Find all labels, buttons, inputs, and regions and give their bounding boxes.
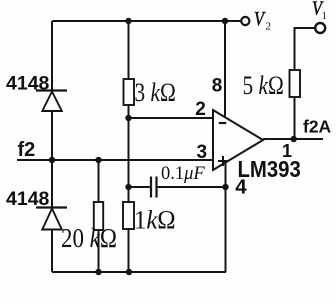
op-amp U1 LM393 triangle xyxy=(213,110,263,170)
wire f2 input to pin 3 xyxy=(17,159,213,161)
wire branch R1/R3 vertical xyxy=(128,21,130,272)
terminal V2 circle xyxy=(241,17,249,25)
terminal V1 circle xyxy=(315,23,325,33)
svg-text:V: V xyxy=(254,8,266,30)
svg-text:5 kΩ: 5 kΩ xyxy=(243,72,284,100)
wire capacitor right xyxy=(157,186,226,188)
node junction output 5k xyxy=(291,136,297,142)
resistor R3 1k body xyxy=(123,202,134,229)
diode D1 cathode bar xyxy=(36,89,67,91)
svg-text:f2A: f2A xyxy=(303,117,332,137)
svg-text:4148: 4148 xyxy=(6,73,50,95)
svg-text:2: 2 xyxy=(195,99,206,120)
wire output f2A xyxy=(263,138,323,140)
node junction bottom rail 20k xyxy=(95,269,101,275)
wire top rail V2 xyxy=(52,20,241,22)
wire capacitor left xyxy=(129,186,151,188)
svg-text:3 kΩ: 3 kΩ xyxy=(135,79,176,107)
svg-text:4: 4 xyxy=(235,176,247,199)
svg-text:3: 3 xyxy=(197,142,208,163)
wire pin 4 to ground rail xyxy=(225,162,227,272)
svg-text:4148: 4148 xyxy=(6,188,50,210)
wire branch R2 20k vertical xyxy=(98,160,100,272)
node junction top rail at pin8 xyxy=(222,18,228,24)
op-amp U1 plus sign xyxy=(218,156,228,166)
diode D2 triangle xyxy=(42,209,62,230)
svg-text:0.1μF: 0.1μF xyxy=(161,164,205,184)
svg-text:8: 8 xyxy=(212,76,223,97)
capacitor C1 left plate xyxy=(150,177,152,198)
node junction bottom rail 1k xyxy=(126,269,132,275)
node junction pin2 / R1 bottom xyxy=(125,115,131,121)
wire V1 branch xyxy=(295,28,315,139)
svg-text:1: 1 xyxy=(322,10,328,22)
node junction f2 left rail xyxy=(49,157,55,163)
diode D2 cathode bar xyxy=(36,206,67,208)
svg-text:2: 2 xyxy=(266,21,272,33)
svg-text:f2: f2 xyxy=(18,139,36,161)
wire pin 8 supply xyxy=(224,21,226,118)
node junction capacitor left xyxy=(125,184,131,190)
svg-text:1: 1 xyxy=(282,141,292,161)
node junction capacitor right pin4 xyxy=(222,184,228,190)
op-amp U1 minus sign xyxy=(219,122,226,124)
capacitor C1 right plate xyxy=(155,177,157,198)
node junction f2 at 20k xyxy=(95,157,101,163)
resistor R2 20k body xyxy=(94,202,103,230)
wire pin 2 input xyxy=(129,117,214,119)
node junction top rail at R1 xyxy=(125,18,131,24)
resistor R4 5k body xyxy=(290,70,301,97)
svg-text:20 kΩ: 20 kΩ xyxy=(61,224,117,253)
svg-text:1kΩ: 1kΩ xyxy=(134,206,176,235)
resistor R1 3k body xyxy=(124,79,135,105)
diode D1 triangle xyxy=(42,92,62,112)
wire bottom rail xyxy=(52,271,226,273)
wire left rail xyxy=(51,21,53,272)
